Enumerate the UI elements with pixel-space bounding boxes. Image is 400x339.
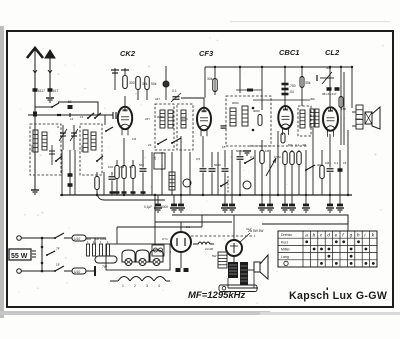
svg-text:1M: 1M [325, 161, 330, 165]
svg-text:0,5M: 0,5M [274, 155, 281, 159]
svg-text:0,1: 0,1 [172, 89, 177, 93]
svg-text:d: d [327, 233, 330, 238]
svg-text:0060: 0060 [181, 117, 188, 121]
svg-text:300: 300 [317, 163, 322, 167]
svg-text:0060: 0060 [232, 101, 239, 105]
svg-text:b: b [313, 233, 316, 238]
svg-text:600: 600 [86, 237, 91, 241]
svg-text:100k: 100k [100, 237, 107, 241]
svg-text:2M: 2M [120, 165, 125, 169]
svg-text:g: g [350, 233, 353, 238]
svg-text:6000: 6000 [161, 205, 168, 209]
svg-text:50k: 50k [288, 143, 293, 147]
svg-text:5000: 5000 [214, 163, 221, 167]
svg-text:50k: 50k [326, 66, 332, 70]
svg-text:50k: 50k [151, 82, 157, 86]
svg-text:CBC1: CBC1 [279, 48, 299, 57]
svg-text:247: 247 [155, 97, 160, 101]
svg-text:23: 23 [153, 156, 157, 160]
svg-text:Mittel: Mittel [281, 248, 290, 252]
svg-text:381 66 617: 381 66 617 [322, 92, 337, 96]
svg-text:1F: 1F [56, 263, 60, 267]
svg-text:7F: 7F [56, 247, 60, 251]
svg-text:3: 3 [146, 284, 148, 288]
svg-text:0,1: 0,1 [250, 155, 255, 159]
svg-text:55 W: 55 W [11, 253, 28, 260]
svg-text:100: 100 [108, 165, 113, 169]
svg-text:5W: 5W [212, 254, 217, 258]
svg-text:30k: 30k [305, 81, 311, 85]
svg-text:7W: 7W [102, 265, 108, 269]
svg-text:2000: 2000 [355, 117, 362, 121]
svg-text:6117: 6117 [38, 89, 45, 93]
svg-text:300: 300 [129, 81, 135, 85]
svg-text:247: 247 [145, 117, 150, 121]
svg-text:UY1: UY1 [162, 237, 168, 241]
svg-text:0,1: 0,1 [334, 161, 339, 165]
svg-text:2: 2 [134, 284, 136, 288]
svg-text:CL2: CL2 [246, 227, 252, 231]
svg-text:MF=1295kHz: MF=1295kHz [188, 290, 246, 301]
svg-text:0060: 0060 [253, 109, 260, 113]
svg-text:23: 23 [148, 143, 152, 147]
svg-text:0060: 0060 [30, 145, 34, 152]
svg-text:0,1: 0,1 [186, 225, 191, 229]
svg-text:18: 18 [222, 145, 226, 149]
svg-text:CF3: CF3 [199, 49, 214, 58]
svg-text:Kapsch Lux G-GW: Kapsch Lux G-GW [289, 290, 387, 302]
svg-text:617: 617 [53, 89, 59, 93]
svg-text:1M: 1M [265, 149, 270, 153]
svg-text:30k: 30k [310, 97, 315, 101]
svg-text:16: 16 [343, 161, 347, 165]
svg-text:h: h [357, 233, 360, 238]
svg-text:U10: U10 [74, 237, 80, 241]
svg-text:Lang: Lang [281, 255, 289, 259]
svg-text:U10: U10 [74, 270, 80, 274]
svg-text:e: e [335, 233, 338, 238]
svg-text:Drehko: Drehko [281, 233, 292, 237]
svg-text:13: 13 [80, 115, 84, 119]
svg-text:,04: ,04 [289, 90, 294, 94]
svg-text:0060: 0060 [80, 145, 84, 152]
svg-text:4M: 4M [302, 143, 307, 147]
svg-text:1: 1 [122, 284, 124, 288]
svg-text:150: 150 [341, 107, 346, 111]
svg-text:a: a [305, 233, 308, 238]
svg-text:CK2: CK2 [120, 49, 136, 58]
svg-text:30k: 30k [207, 77, 213, 81]
svg-text:50: 50 [68, 100, 72, 104]
svg-text:13: 13 [70, 117, 74, 121]
svg-text:0,1: 0,1 [129, 165, 134, 169]
svg-text:4: 4 [158, 284, 160, 288]
svg-text:70k: 70k [94, 237, 99, 241]
svg-text:2x100: 2x100 [205, 247, 214, 251]
svg-text:CL2: CL2 [325, 48, 340, 57]
svg-text:50k: 50k [139, 163, 144, 167]
svg-text:1M: 1M [132, 137, 137, 141]
svg-text:0,1: 0,1 [295, 143, 300, 147]
svg-text:Kurz: Kurz [281, 240, 288, 244]
svg-text:0060: 0060 [157, 115, 164, 119]
svg-text:0,5: 0,5 [196, 157, 201, 161]
svg-text:0,1μF: 0,1μF [144, 205, 152, 209]
svg-text:,750: ,750 [289, 84, 296, 88]
svg-text:5000: 5000 [236, 149, 243, 153]
